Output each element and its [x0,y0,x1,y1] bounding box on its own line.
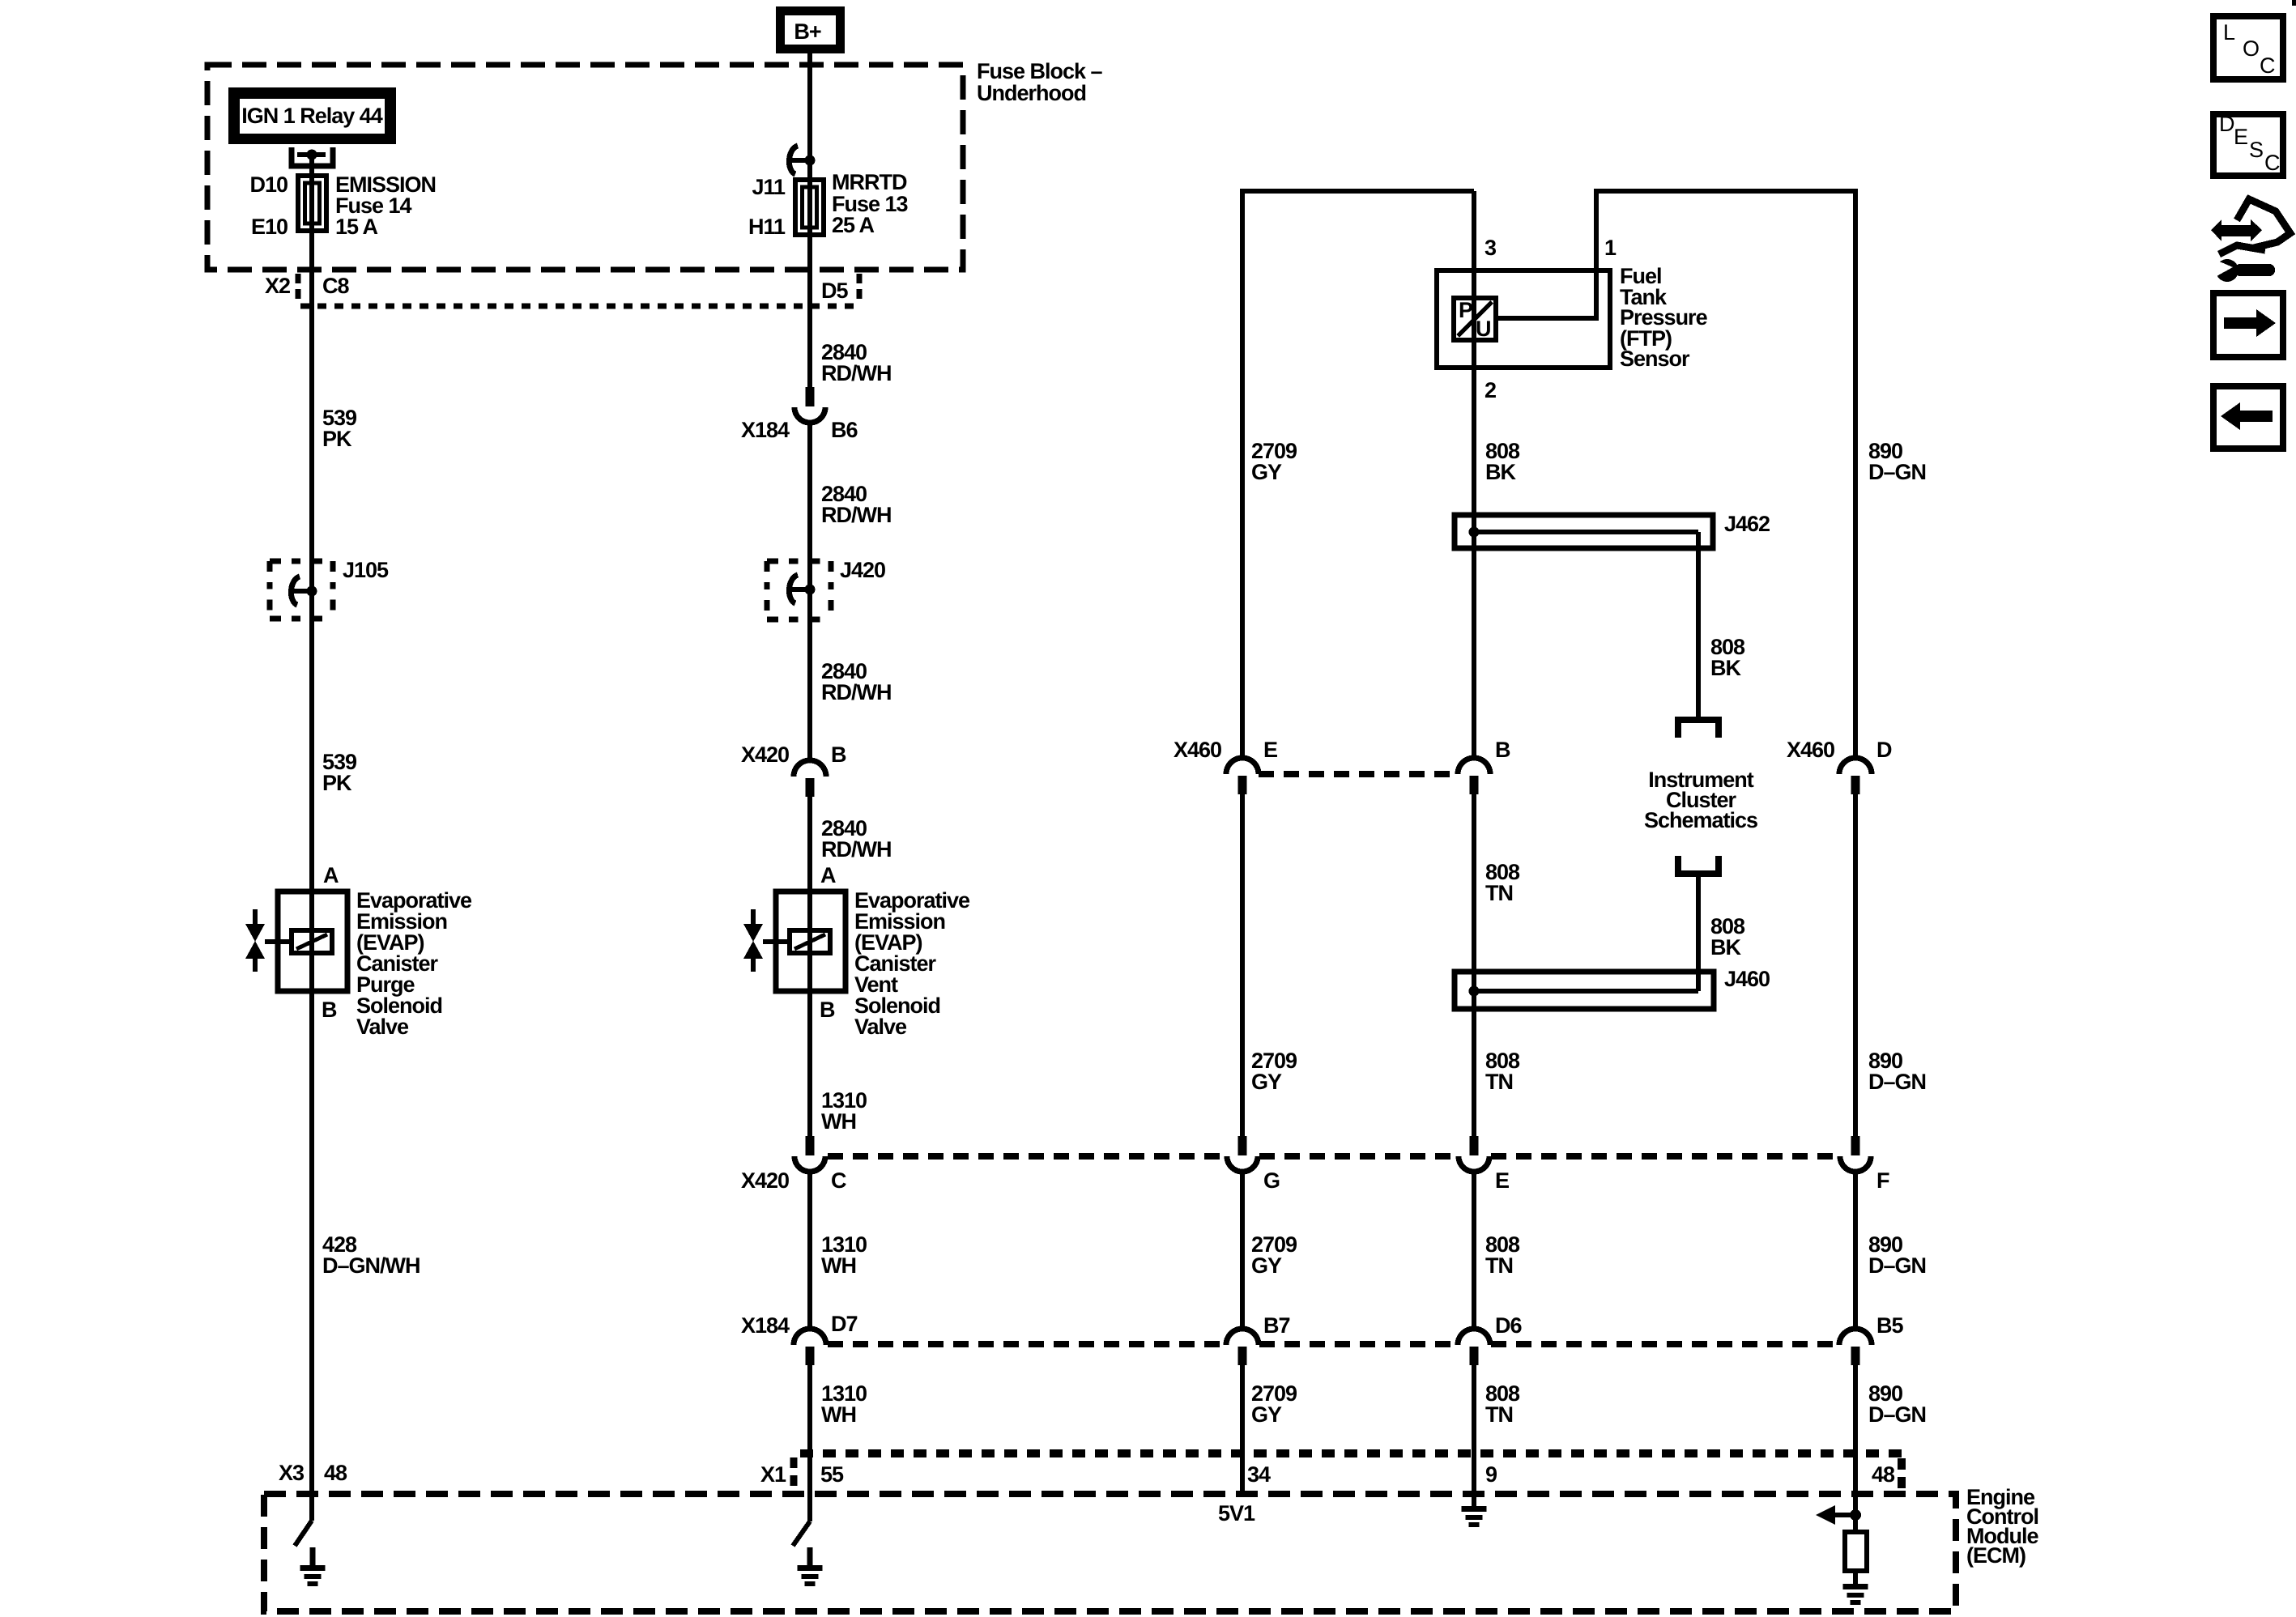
label EMISSION Fuse 14 15 A [335,172,436,239]
label wire 2709 GY 4 [1251,1381,1297,1427]
wire middle segments [807,53,812,1521]
label Evaporative Emission EVAP Canister Purge Solenoid Valve [356,888,472,1039]
svg-text:MRRTD: MRRTD [832,170,907,194]
label H11 [748,215,786,239]
svg-text:A: A [323,863,339,887]
label wire 808 BK 1 [1485,439,1520,484]
svg-text:WH: WH [821,1253,856,1278]
label 5V1 [1218,1501,1255,1526]
label pin 1 [1604,236,1617,260]
svg-text:J460: J460 [1724,967,1770,991]
label Evaporative Emission EVAP Canister Vent Solenoid Valve [854,888,970,1039]
label pin B vent valve [820,998,835,1022]
label wire 2709 GY 2 [1251,1049,1297,1094]
label wire 1310 WH 2 [821,1232,867,1278]
svg-text:3: 3 [1485,236,1497,260]
connector X460 D symbol [1839,758,1872,794]
svg-text:X1: X1 [760,1462,786,1487]
connector X1 vertical dashes [790,1457,798,1487]
svg-text:D7: D7 [831,1312,858,1336]
svg-text:BK: BK [1710,656,1741,680]
wire 890 vertical [1853,794,1858,1532]
label X420 upper [741,743,789,767]
svg-text:48: 48 [324,1461,347,1485]
junction dot J460 [1469,986,1480,997]
label F [1876,1168,1889,1193]
ground pin 9 in ECM [1462,1506,1487,1527]
junction dot J105 [307,586,317,597]
svg-text:L: L [2223,20,2235,45]
svg-text:X460: X460 [1787,738,1834,762]
label B sensor [1495,738,1510,762]
label pin 3 [1485,236,1497,260]
fuse block underhood dashed outline [207,65,963,270]
svg-text:C: C [831,1168,846,1193]
svg-text:B: B [1495,738,1510,762]
svg-text:TN: TN [1485,1253,1513,1278]
splice bar J460 [1455,972,1714,1009]
svg-text:TN: TN [1485,1070,1513,1094]
label wire 1310 WH 3 [821,1381,867,1427]
svg-text:B5: B5 [1876,1313,1903,1338]
svg-text:E: E [1495,1168,1509,1193]
svg-text:GY: GY [1251,1402,1282,1427]
label J420 [840,558,885,582]
label wire 890 D-GN 1 [1868,439,1926,484]
junction dot J11 [805,155,816,166]
label E [1263,738,1277,762]
wire cluster to J460 [1696,874,1701,991]
svg-text:B: B [831,743,846,767]
wire 808 vertical [1472,191,1476,1506]
label D7 [831,1312,858,1336]
icon arrow right box [2213,293,2283,357]
label wire 808 BK from cluster [1710,914,1745,960]
svg-text:B: B [820,998,835,1022]
ground middle in ECM [798,1547,823,1586]
svg-text:X420: X420 [741,743,789,767]
wire 2709 vertical [1240,794,1245,1494]
scan artifact tick top right corner [2292,0,2296,6]
connector row X184 dashed line [828,1341,1838,1347]
label pin A vent valve [820,863,836,887]
svg-text:H11: H11 [748,215,786,239]
relay terminal bracket [292,147,333,166]
svg-text:Sensor: Sensor [1620,347,1690,371]
label pin A purge valve [323,863,339,887]
label wire 2840 RD/WH 4 [821,816,891,862]
fuse F14 EMISSION 15 A symbol [298,176,326,231]
label pin 48 right [1872,1462,1895,1487]
label wire 890 D-GN 4 [1868,1381,1926,1427]
connector row X460 dashed line [1259,771,1458,777]
svg-text:B: B [322,998,337,1022]
svg-text:D–GN: D–GN [1868,460,1926,484]
connector X420 B symbol [794,760,826,797]
label X420 lower [741,1168,789,1193]
label Fuse Block - Underhood [977,59,1103,105]
sensor internal wire pin1 [0,0,1,1]
svg-text:RD/WH: RD/WH [821,361,891,385]
connector line X2 row dashed [300,304,858,309]
label X460 left [1174,738,1221,762]
svg-text:B7: B7 [1263,1313,1290,1338]
svg-text:55: 55 [820,1462,844,1487]
svg-text:(ECM): (ECM) [1966,1543,2026,1568]
connector X420 F symbol [1840,1136,1871,1172]
svg-text:X460: X460 [1174,738,1221,762]
svg-text:5V1: 5V1 [1218,1501,1255,1526]
fuse F13 MRRTD 25 A symbol [795,180,824,235]
svg-text:RD/WH: RD/WH [821,837,891,862]
power feed node B+ [781,11,841,49]
svg-text:X3: X3 [279,1461,305,1485]
connector X420 G symbol [1227,1136,1258,1172]
label pin 55 [820,1462,844,1487]
connector row X1 dashed line [800,1453,1902,1488]
label J460 [1724,967,1770,991]
connector X2 vertical dashes [296,274,301,301]
label wire 890 D-GN 3 [1868,1232,1926,1278]
svg-text:J105: J105 [343,558,389,582]
svg-text:WH: WH [821,1109,856,1134]
arrow out pin 48 [1816,1505,1855,1525]
label B7 [1263,1313,1290,1338]
svg-text:34: 34 [1247,1462,1271,1487]
label Engine Control Module ECM [1966,1485,2038,1568]
label X184 upper [741,418,790,442]
connector X460 B symbol [1458,758,1490,794]
svg-text:C: C [2260,53,2275,78]
label wire 2840 RD/WH 1 [821,340,891,385]
label B [831,743,846,767]
svg-text:C8: C8 [322,274,349,298]
svg-text:D–GN: D–GN [1868,1402,1926,1427]
svg-text:25 A: 25 A [832,213,875,237]
junction dot relay output [307,150,317,160]
label pin 2 [1485,378,1496,402]
label pin B purge valve [322,998,337,1022]
label wire 808 BK to cluster [1710,635,1745,680]
label wire 808 TN above J460 [1485,860,1520,905]
splice J420 dashed box [767,561,831,619]
FTP sensor outline box [1437,270,1610,368]
svg-text:RD/WH: RD/WH [821,503,891,527]
label wire 808 TN 4 [1485,1381,1520,1427]
label pin 34 [1247,1462,1271,1487]
label wire 539 PK lower [322,750,357,795]
svg-text:E10: E10 [251,215,288,239]
label X184 lower [741,1313,790,1338]
splice J105 dashed box [270,561,333,619]
icon LOC box [2213,16,2283,79]
connector X184 B5 symbol [1839,1329,1872,1365]
svg-text:D5: D5 [821,279,848,303]
wire top right horizontal [1496,191,1855,758]
svg-text:9: 9 [1485,1462,1497,1487]
label B5 [1876,1313,1903,1338]
connector X420 C symbol [794,1136,825,1172]
svg-text:GY: GY [1251,1253,1282,1278]
svg-text:X184: X184 [741,1313,790,1338]
connector D5 vertical dashes [857,274,863,301]
splice bar J462 [1455,515,1713,548]
label wire 890 D-GN 2 [1868,1049,1926,1094]
label pin 48 left [324,1461,347,1485]
svg-text:E: E [1263,738,1277,762]
svg-text:F: F [1876,1168,1889,1193]
svg-text:BK: BK [1485,460,1516,484]
svg-text:U: U [1476,317,1491,341]
svg-text:X2: X2 [265,274,290,298]
svg-text:TN: TN [1485,1402,1513,1427]
ground pin 48 in ECM [1843,1571,1868,1605]
label Instrument Cluster Schematics [1644,768,1757,832]
icon DESC box [2213,112,2283,176]
svg-text:WH: WH [821,1402,856,1427]
label X460 right [1787,738,1834,762]
svg-text:D10: D10 [249,172,288,197]
svg-text:C: C [2264,151,2280,175]
label Fuel Tank Pressure FTP Sensor [1620,264,1708,371]
resistor in ECM [1845,1532,1867,1571]
wire top left horizontal [1242,191,1474,758]
junction dot pin 48 [1850,1509,1861,1521]
off-page connector to instrument cluster top [1678,720,1719,738]
solenoid EVAP canister purge valve [245,891,347,991]
label G [1263,1168,1280,1193]
svg-text:B6: B6 [831,418,858,442]
label wire 808 TN 2 [1485,1049,1520,1094]
wire B+ down to fuse 13 [807,53,812,180]
junction dot J462 [1469,527,1480,538]
splice hook J11 feed [789,146,810,174]
label E10 [251,215,288,239]
label J105 [343,558,389,582]
svg-text:TN: TN [1485,881,1513,905]
icon hand with wrench [2211,199,2290,282]
switch contact left in ECM [295,1521,312,1546]
svg-text:D–GN: D–GN [1868,1070,1926,1094]
svg-text:Valve: Valve [356,1015,409,1039]
label D5 [821,279,848,303]
connector X184 D6 symbol [1458,1329,1490,1365]
svg-text:GY: GY [1251,460,1282,484]
svg-text:Valve: Valve [854,1015,907,1039]
label J11 [752,175,786,199]
label X1 [760,1462,786,1487]
svg-text:1: 1 [1604,236,1617,260]
wire J462 drop to cluster [1696,532,1701,718]
svg-text:G: G [1263,1168,1280,1193]
svg-text:D6: D6 [1495,1313,1522,1338]
label X2 [265,274,290,298]
label J462 [1724,512,1770,536]
svg-text:D: D [2219,112,2234,136]
svg-text:J11: J11 [752,175,786,199]
svg-text:15 A: 15 A [335,215,378,239]
label wire 428 D-GN/WH [322,1232,420,1278]
svg-text:D: D [1876,738,1892,762]
label C8 [322,274,349,298]
svg-text:A: A [820,863,836,887]
svg-text:Underhood: Underhood [977,81,1086,105]
sensor P/U symbol box [1454,298,1496,341]
label pin 9 [1485,1462,1497,1487]
svg-text:S: S [2249,138,2263,162]
connector X460 E symbol [1226,758,1259,794]
label X3 [279,1461,305,1485]
svg-text:48: 48 [1872,1462,1895,1487]
label D10 [249,172,288,197]
svg-text:PK: PK [322,771,352,795]
label wire 2840 RD/WH 2 [821,482,891,527]
svg-text:B+: B+ [794,19,820,44]
svg-text:X420: X420 [741,1168,789,1193]
ground left in ECM [300,1547,326,1586]
splice J420 hook [789,575,810,603]
svg-text:GY: GY [1251,1070,1282,1094]
connector X420 E symbol [1459,1136,1489,1172]
off-page connector from instrument cluster bottom [1678,856,1719,874]
junction dot J420 [805,585,816,595]
switch contact middle in ECM [793,1521,810,1546]
label B6 [831,418,858,442]
connector X184 D7 symbol [794,1329,826,1365]
label D [1876,738,1892,762]
label wire 1310 WH 1 [821,1088,867,1134]
label wire 539 PK upper [322,406,357,451]
label D6 [1495,1313,1522,1338]
svg-text:P: P [1459,298,1473,322]
connector X184 B6 symbol [794,387,825,423]
svg-text:O: O [2243,36,2259,61]
label MRRTD Fuse 13 25 A [832,170,909,237]
relay IGN 1 Relay 44 label box [232,91,392,140]
svg-text:D–GN: D–GN [1868,1253,1926,1278]
label C [831,1168,846,1193]
label E row3 [1495,1168,1509,1193]
ECM dashed outline [264,1494,1956,1611]
svg-text:IGN 1 Relay 44: IGN 1 Relay 44 [241,104,383,128]
label wire 2840 RD/WH 3 [821,659,891,704]
label wire 2709 GY 1 [1251,439,1297,484]
svg-text:E: E [2234,125,2247,149]
connector row X420 dashed line [828,1153,1838,1160]
wire relay to fuse 14 [309,155,314,1521]
label wire 2709 GY 3 [1251,1232,1297,1278]
svg-text:Schematics: Schematics [1644,808,1757,832]
svg-text:Fuse Block –: Fuse Block – [977,59,1103,83]
icon arrow left box [2213,386,2283,449]
svg-text:BK: BK [1710,935,1741,960]
svg-text:J420: J420 [840,558,885,582]
svg-text:PK: PK [322,427,352,451]
svg-text:D–GN/WH: D–GN/WH [322,1253,420,1278]
label wire 808 TN 3 [1485,1232,1520,1278]
svg-text:X184: X184 [741,418,790,442]
splice J105 hook [291,577,312,605]
svg-text:RD/WH: RD/WH [821,680,891,704]
connector X184 B7 symbol [1226,1329,1259,1365]
solenoid EVAP canister vent valve [743,891,846,991]
svg-text:2: 2 [1485,378,1496,402]
svg-text:J462: J462 [1724,512,1770,536]
